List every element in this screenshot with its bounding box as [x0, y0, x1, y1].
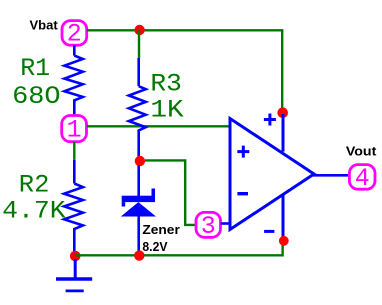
wire node1 down stub: [73, 142, 75, 160]
svg-text:3: 3: [201, 212, 216, 241]
node 4: [349, 164, 375, 193]
diode D1 zener: [121, 189, 156, 217]
svg-text:Vbat: Vbat: [30, 17, 59, 32]
wire R1 to node1: [73, 101, 76, 116]
wire tee to node 3: [145, 160, 196, 225]
op-amp V- marker: [264, 230, 274, 233]
op-amp U1: [230, 119, 314, 230]
svg-text:68O: 68O: [12, 82, 61, 111]
wire node1 stub to R2: [73, 160, 76, 184]
op-amp plus input marker: [237, 146, 249, 158]
svg-text:1K: 1K: [150, 96, 183, 125]
wire op-amp output: [313, 174, 349, 177]
svg-text:8.2V: 8.2V: [142, 239, 167, 254]
op-amp V+ marker: [264, 114, 276, 126]
wire V+ supply lead: [282, 114, 285, 152]
svg-text:4: 4: [355, 164, 370, 193]
wire R3 bottom lead to zener tee: [137, 131, 140, 158]
wire node1 to op-amp plus input: [87, 125, 229, 127]
wire zener cathode lead: [137, 165, 140, 197]
junction dot zener node3 tee: [135, 156, 145, 166]
svg-text:4.7K: 4.7K: [2, 197, 65, 226]
svg-text:Zener: Zener: [142, 222, 179, 237]
svg-text:R2: R2: [19, 171, 50, 200]
node 3: [196, 212, 221, 241]
wire R3 top lead: [137, 58, 140, 86]
wire top rail to R3 green stub: [138, 30, 140, 58]
node 1: [62, 116, 87, 145]
resistor R1 body: [64, 56, 82, 104]
wire bottom rail: [75, 244, 282, 255]
resistor R2 body: [64, 184, 83, 231]
junction dot V+ supply: [277, 107, 288, 118]
svg-text:R3: R3: [150, 69, 182, 98]
svg-text:1: 1: [67, 116, 82, 145]
svg-text:2: 2: [67, 20, 82, 49]
op-amp minus input marker: [237, 192, 248, 195]
wire zener anode lead to bottom rail: [137, 217, 140, 254]
junction dot V- supply: [279, 236, 289, 246]
resistor R3 body: [129, 86, 146, 132]
junction dot top R3 tee: [134, 25, 144, 35]
wire node3 to op-amp minus input: [221, 222, 231, 225]
ground: [56, 259, 92, 291]
svg-text:R1: R1: [20, 54, 50, 83]
wire Vbat top rail: [87, 30, 283, 113]
wire R2 to ground junction: [73, 229, 76, 253]
node 2: [62, 20, 87, 49]
junction dot R2 ground: [70, 251, 81, 262]
wire node2 to R1: [73, 45, 76, 55]
wire V- supply lead: [282, 195, 285, 239]
svg-text:Vout: Vout: [346, 143, 377, 158]
junction dot zener bottom: [134, 250, 144, 260]
